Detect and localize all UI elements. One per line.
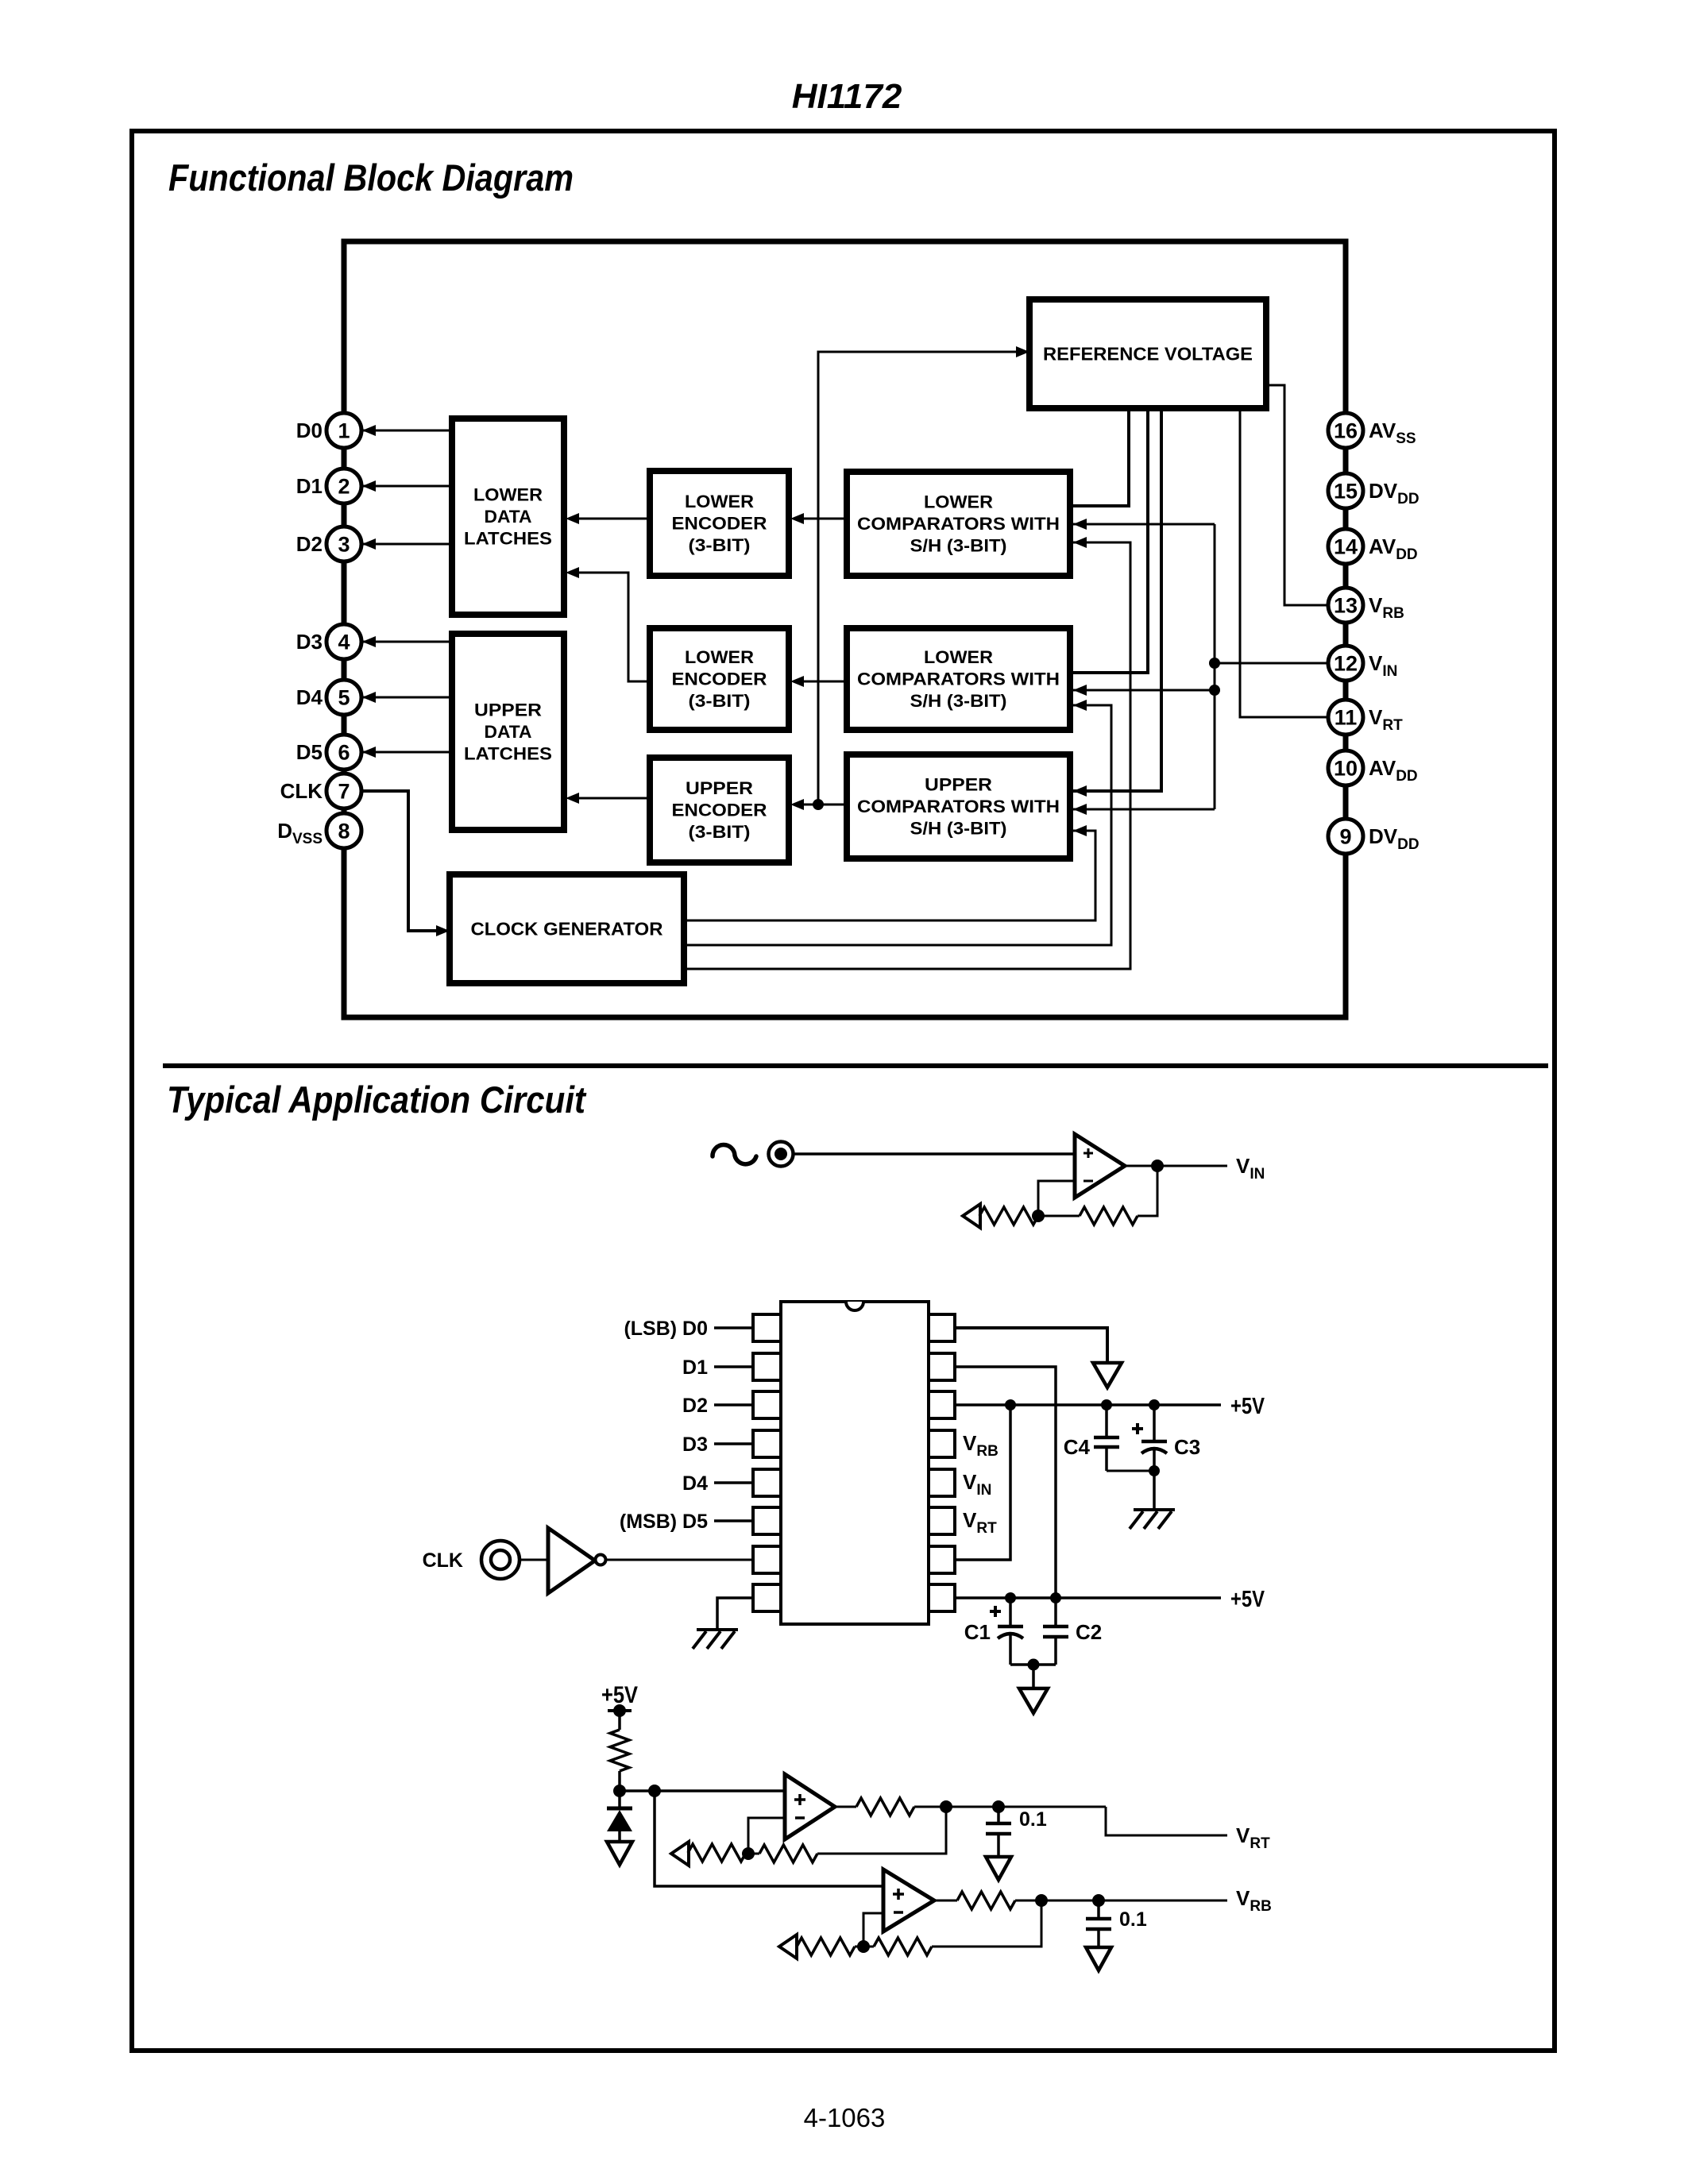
wire junction to R9 [863,1946,874,1948]
svg-text:D5: D5 [296,740,323,764]
svg-text:AVSS: AVSS [1369,419,1416,447]
junction U1 output [1151,1160,1164,1172]
svg-text:7: 7 [338,780,350,804]
op-amp U4 [883,1870,934,1931]
ground C6 [1086,1947,1111,1970]
capacitor C2 [1054,1598,1057,1626]
wire U1 output VIN [1125,1165,1227,1167]
block REFERENCE VOLTAGE [1029,299,1266,408]
svg-text:HI1172: HI1172 [792,77,902,116]
wire R4 to VRT [914,1806,1106,1808]
wire lower data latches to pin D2 [363,543,452,546]
svg-text:S/H (3-BIT): S/H (3-BIT) [910,819,1007,839]
junction U3 feedback [742,1847,755,1860]
wire R7 to VRB [1015,1900,1227,1902]
junction VIN bus to comparator 2 [1209,685,1220,696]
wire U3 inverting input [748,1818,785,1854]
junction C5 output [992,1800,1005,1813]
wire U1 feedback to inverting input [1038,1181,1075,1216]
svg-text:UPPER: UPPER [474,700,542,720]
junction rail1 C3 [1149,1399,1160,1410]
svg-text:REFERENCE VOLTAGE: REFERENCE VOLTAGE [1043,344,1253,365]
wire C4 C3 common [1107,1470,1154,1472]
svg-text:6: 6 [338,741,350,765]
wire R3 to node A [618,1771,621,1791]
pin 13 circle [1328,588,1363,623]
svg-text:4-1063: 4-1063 [804,2103,886,2132]
svg-text:DVSS: DVSS [277,819,323,847]
junction R1 R2 [1032,1210,1045,1222]
IC left pin 4 [753,1430,781,1457]
svg-text:VIN: VIN [1236,1154,1265,1183]
svg-text:10: 10 [1334,757,1358,781]
svg-text:2: 2 [338,475,350,499]
svg-text:COMPARATORS WITH: COMPARATORS WITH [857,797,1060,816]
resistor R8 [797,1938,855,1955]
wire lower comparators 2 to lower encoder 2 [794,681,847,683]
svg-text:C3: C3 [1174,1435,1200,1459]
wire lower data latches to pin D0 [363,430,452,432]
svg-text:(3-BIT): (3-BIT) [689,822,751,842]
wire lower data latches to pin D1 [363,485,452,488]
junction U4 feedback [857,1940,870,1953]
capacitor C6 0.1 [1097,1900,1100,1919]
svg-text:12: 12 [1334,652,1358,676]
wire upper comparators to upper encoder [794,804,847,806]
wire R9 to output [932,1900,1041,1947]
ground AVSS [1093,1363,1122,1387]
wire clock to lower comparators 1 [684,542,1130,969]
junction upper encoder input [813,799,824,810]
svg-text:COMPARATORS WITH: COMPARATORS WITH [857,669,1060,689]
resistor R4 [856,1798,914,1815]
wire VIN vertical bus [1214,524,1216,809]
svg-text:VRB: VRB [1369,593,1404,622]
capacitor C1 [990,1610,1001,1613]
resistor R2 [1080,1207,1138,1225]
wire VIN to upper comparators [1073,808,1215,811]
svg-text:VRB: VRB [963,1431,999,1460]
svg-text:LOWER: LOWER [685,647,754,667]
svg-text:AVDD: AVDD [1369,756,1418,785]
svg-text:VRT: VRT [1236,1823,1270,1852]
wire clock to upper comparators [684,831,1095,920]
wire label D1 to pin [714,1365,753,1368]
svg-text:4: 4 [338,631,350,654]
capacitor C5 0.1 [997,1807,1000,1823]
wire R6 to output [817,1807,946,1854]
wire C3 to chassis ground [1153,1471,1156,1510]
block UPPER COMPARATORS [847,754,1070,859]
wire junction to R6 [748,1853,759,1855]
svg-text:DATA: DATA [485,507,532,527]
junction C3 bottom [1149,1465,1160,1476]
IC right pin 13 [929,1430,955,1457]
svg-text:5: 5 [338,686,350,710]
svg-text:UPPER: UPPER [686,778,753,798]
wire node A to op-amp U3 [620,1789,785,1792]
wire R1 to R2 [1038,1215,1080,1217]
svg-text:D1: D1 [682,1356,708,1379]
capacitor C3 [1132,1427,1143,1430]
pin 6 circle [326,735,361,770]
block LOWER ENCODER 1 [650,471,789,576]
section divider line [163,1063,1548,1068]
wire inverter to IC pin7 [606,1559,753,1561]
wire label (LSB) D0 to pin [714,1326,753,1329]
svg-text:DATA: DATA [485,722,532,742]
wire R2 to output [1138,1166,1157,1216]
block LOWER ENCODER 2 [650,628,789,730]
svg-text:LOWER: LOWER [924,492,993,512]
ground arrow row1 [963,1204,980,1228]
wire +5V to R3 [618,1711,621,1730]
wire DVDD pin15 to +5V rail2 [955,1367,1056,1598]
svg-text:Functional Block Diagram: Functional Block Diagram [168,156,574,199]
pin 10 circle [1328,751,1363,785]
block UPPER DATA LATCHES [452,634,564,830]
svg-text:8: 8 [338,820,350,843]
wire U3 output [835,1806,856,1808]
IC right pin 15 [929,1353,955,1380]
chassis ground pin8 [697,1628,738,1631]
wire VRT step [1106,1807,1227,1835]
pin 8 circle [326,813,361,848]
svg-text:D3: D3 [296,630,323,654]
pin 16 circle [1328,413,1363,448]
svg-text:C1: C1 [964,1620,991,1644]
wire source to op-amp U1 [794,1152,1075,1156]
resistor R5 [688,1844,746,1862]
+5V rail 2 [955,1596,1221,1599]
svg-text:VIN: VIN [1369,651,1397,680]
block LOWER DATA LATCHES [452,419,564,615]
IC right pin 10 [929,1546,955,1573]
IC right pin 14 [929,1391,955,1418]
wire lower comparators 1 to lower encoder 1 [794,518,847,520]
wire diode D1 cathode [618,1791,621,1808]
wire CLK pin7 to clock generator [362,791,445,931]
junction rail2 C2 [1050,1592,1061,1603]
IC left pin 8 [753,1584,781,1611]
svg-text:+5V: +5V [1230,1587,1265,1612]
IC left pin 1 [753,1314,781,1341]
junction rail1 pin10 [1005,1399,1016,1410]
wire reference output 2 to lower comparators 2 [1070,408,1148,673]
svg-text:CLK: CLK [280,779,323,803]
wire upper encoder to upper data latches [569,797,650,800]
pin 9 circle [1328,819,1363,854]
wire C1 C2 common [1010,1663,1056,1666]
pin 7 circle [326,774,361,808]
ground C5 [986,1857,1011,1880]
wire lower encoder 1 to lower data latches [569,518,650,520]
wire reference output 3 to upper comparators [1073,408,1161,791]
IC body HI1172 [781,1302,929,1624]
svg-text:D3: D3 [682,1433,708,1456]
wire AVDD pin10 to +5V rail1 [955,1405,1010,1560]
svg-text:S/H (3-BIT): S/H (3-BIT) [910,536,1007,556]
wire IC pin8 to chassis ground [717,1598,753,1630]
svg-text:LATCHES: LATCHES [464,744,552,764]
svg-text:14: 14 [1334,535,1358,559]
junction node A [613,1785,626,1797]
svg-text:11: 11 [1335,706,1358,730]
op-amp U1 [1075,1134,1125,1198]
ground arrow U3 [671,1842,689,1866]
svg-text:0.1: 0.1 [1019,1808,1047,1831]
IC left pin 2 [753,1353,781,1380]
wire U4 output [934,1900,957,1902]
ground C1 C2 [1019,1688,1048,1713]
wire VRB pin13 from reference voltage [1266,385,1327,605]
+5V rail 1 [955,1403,1221,1406]
IC right pin 16 [929,1314,955,1341]
svg-text:Typical Application Circuit: Typical Application Circuit [167,1078,587,1121]
wire VIN pin12 to bus [1215,662,1328,665]
wire upper data latches to pin D4 [363,696,452,699]
svg-text:VRB: VRB [1236,1886,1272,1915]
wire label D2 to pin [714,1403,753,1406]
wire U4 inverting input [863,1913,883,1947]
svg-text:VRT: VRT [1369,705,1403,734]
svg-text:ENCODER: ENCODER [672,801,767,820]
diode D1 [607,1807,632,1811]
svg-text:DVDD: DVDD [1369,824,1420,853]
wire CLK connector to inverter [520,1559,548,1561]
svg-text:D2: D2 [296,532,323,556]
svg-text:C4: C4 [1064,1435,1091,1459]
svg-text:D1: D1 [296,474,323,498]
chassis ground C3 [1134,1508,1175,1511]
pin 2 circle [326,469,361,504]
junction rail2 C1 [1005,1592,1016,1603]
block LOWER COMPARATORS 1 [847,472,1070,576]
svg-text:D0: D0 [296,419,323,442]
svg-text:S/H (3-BIT): S/H (3-BIT) [910,691,1007,711]
wire upper data latches to pin D5 [363,751,452,754]
pin 14 circle [1328,529,1363,564]
svg-text:(MSB) D5: (MSB) D5 [620,1511,708,1533]
block LOWER COMPARATORS 2 [847,628,1070,730]
resistor R1 [979,1207,1038,1225]
pin 3 circle [326,527,361,561]
svg-text:LATCHES: LATCHES [464,529,552,549]
wire clock to lower comparators 2 [684,705,1111,945]
wire VRT pin11 to reference voltage [1240,408,1327,717]
wire label D3 to pin [714,1442,753,1445]
wire node A to op-amp U4 [655,1791,883,1886]
svg-text:(LSB) D0: (LSB) D0 [624,1318,708,1340]
ground diode [607,1842,632,1865]
CLK connector [481,1541,520,1579]
pin 12 circle [1328,646,1363,681]
block diagram outline [344,241,1346,1017]
svg-text:C2: C2 [1076,1620,1102,1644]
svg-text:+5V: +5V [1230,1394,1265,1419]
svg-text:15: 15 [1334,480,1358,504]
wire R8 to junction [855,1946,863,1948]
IC right pin 11 [929,1507,955,1534]
wire lower encoder 2 to lower data latches [569,573,650,681]
resistor R9 [874,1938,932,1955]
pin 1 circle [326,413,361,448]
AC source symbol [713,1144,756,1163]
svg-text:ENCODER: ENCODER [672,669,767,689]
svg-text:(3-BIT): (3-BIT) [689,691,751,711]
wire reference output 1 to lower comparators 1 [1070,408,1129,506]
wire upper data latches to pin D3 [363,641,452,643]
IC right pin 9 [929,1584,955,1611]
svg-text:LOWER: LOWER [924,647,993,667]
svg-text:VIN: VIN [963,1470,991,1499]
svg-text:1: 1 [338,419,350,443]
resistor R3 [610,1730,629,1771]
wire diode to ground [618,1831,621,1841]
resistor R7 [957,1892,1015,1909]
svg-text:LOWER: LOWER [473,485,543,505]
svg-text:D4: D4 [682,1472,708,1495]
page border frame [132,131,1555,2051]
wire label D4 to pin [714,1481,753,1484]
IC left pin 3 [753,1391,781,1418]
svg-text:0.1: 0.1 [1119,1908,1147,1931]
wire VIN to lower comparators 2 [1073,689,1215,692]
junction VIN bus at pin12 [1209,658,1220,669]
svg-text:D4: D4 [296,685,323,709]
svg-text:16: 16 [1334,419,1358,443]
wire R5 to junction [745,1853,748,1855]
inverter U2 [548,1528,595,1593]
IC left pin 5 [753,1469,781,1496]
IC right pin 12 [929,1469,955,1496]
svg-text:9: 9 [1339,825,1351,849]
wire label (MSB) D5 to pin [714,1519,753,1522]
input connector [769,1142,794,1167]
capacitor C4 [1105,1405,1108,1437]
junction +5V terminal [608,1709,632,1712]
IC notch [846,1302,863,1310]
block UPPER ENCODER [650,758,789,862]
resistor R6 [759,1845,817,1862]
block CLOCK GENERATOR [450,874,684,983]
svg-text:D2: D2 [682,1395,708,1417]
wire VIN to lower comparators 1 [1073,523,1215,526]
ground arrow U4 [779,1935,797,1958]
IC left pin 6 [753,1507,781,1534]
svg-text:3: 3 [338,533,350,557]
wire node to reference voltage input [818,352,1025,805]
svg-text:ENCODER: ENCODER [672,514,767,534]
junction R6 output [940,1800,952,1813]
svg-text:CLOCK GENERATOR: CLOCK GENERATOR [471,919,663,940]
pin 5 circle [326,680,361,715]
IC left pin 7 [753,1546,781,1573]
junction R9 output [1035,1894,1048,1907]
svg-text:LOWER: LOWER [685,492,754,511]
junction C1 C2 ground [1028,1659,1040,1671]
svg-text:AVDD: AVDD [1369,534,1418,563]
svg-text:CLK: CLK [423,1549,463,1572]
svg-text:COMPARATORS WITH: COMPARATORS WITH [857,514,1060,534]
op-amp U3 [785,1774,835,1839]
wire to ground row2 [1032,1665,1035,1687]
wire AVSS to ground [955,1328,1107,1363]
pin 15 circle [1328,473,1363,508]
inverter U2 bubble [596,1555,606,1565]
pin 11 circle [1328,700,1363,735]
svg-text:DVDD: DVDD [1369,479,1420,507]
svg-text:UPPER: UPPER [925,775,992,795]
svg-text:13: 13 [1334,594,1358,618]
svg-text:(3-BIT): (3-BIT) [689,535,751,555]
junction node A branch [648,1785,661,1797]
junction rail1 C4 [1101,1399,1112,1410]
pin 4 circle [326,624,361,659]
junction C6 output [1092,1894,1105,1907]
svg-text:VRT: VRT [963,1508,997,1537]
